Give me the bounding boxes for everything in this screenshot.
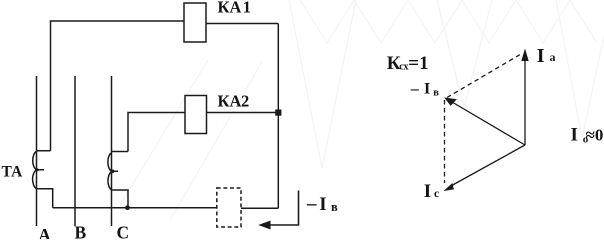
vector Ia solid [524, 59, 526, 145]
dashed construction line from -Iv tip to Ic tip [444, 100, 446, 183]
svg-text:Ксх=1: Ксх=1 [387, 53, 429, 74]
current transformer TA phase A secondary winding [33, 151, 51, 189]
vector Ic solid [449, 145, 525, 187]
wire return conductor left segment [53, 207, 217, 209]
svg-text:С: С [117, 223, 130, 240]
junction square on bus at KA2 wire [275, 110, 281, 116]
phase bus A [36, 76, 38, 226]
arrowhead Ic [444, 183, 454, 191]
relay coil KA2 [185, 96, 207, 134]
arrow -Iv on return conductor [258, 191, 298, 230]
dashed construction line from -Iv tip to Ia tip [447, 54, 521, 98]
wire from TA-C secondary bottom to return wire junction [112, 190, 129, 208]
relay placeholder dashed box [217, 188, 241, 227]
wire from KA2 right terminal to right bus [207, 112, 279, 114]
svg-text:В: В [75, 223, 87, 240]
wire from TA-C secondary top to KA2 left terminal [128, 113, 185, 152]
phase bus B [74, 76, 76, 226]
svg-text:КА1: КА1 [218, 0, 252, 17]
winding junction blob TA-A [36, 168, 39, 171]
wire return conductor right segment to bus [241, 207, 278, 209]
relay coil KA1 [184, 3, 206, 42]
svg-text:КА2: КА2 [218, 91, 250, 110]
current transformer TA phase C secondary winding [108, 152, 128, 190]
svg-text:А: А [38, 225, 51, 239]
wire from TA-A secondary top to KA1 left terminal [51, 21, 185, 151]
vector -Iv solid [452, 102, 525, 145]
svg-text:ТА: ТА [2, 164, 24, 181]
wire right vertical bus [277, 24, 279, 209]
arrowhead Ia [521, 49, 528, 62]
svg-text:Iо≈0: Iо≈0 [571, 125, 604, 146]
wire from KA1 right terminal to right bus [206, 23, 278, 25]
wire from TA-A secondary bottom to return wire [37, 189, 53, 208]
winding junction blob TA-C [111, 170, 115, 174]
phase bus C [111, 76, 113, 226]
arrowhead -Iv [444, 98, 457, 106]
vector diagram [445, 54, 526, 187]
junction dot on return wire at TA-C connection [125, 205, 130, 210]
